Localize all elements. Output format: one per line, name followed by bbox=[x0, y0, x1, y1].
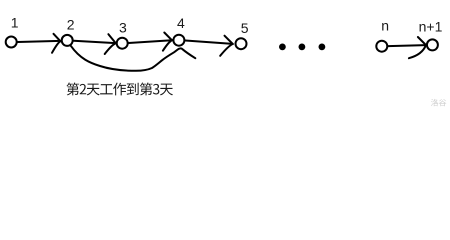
arrowhead n-n+1 bbox=[418, 37, 426, 45]
node 4 circle bbox=[173, 35, 184, 46]
svg-text:1: 1 bbox=[11, 15, 19, 31]
svg-text:3: 3 bbox=[119, 19, 127, 35]
watermark 洛谷 bbox=[431, 99, 446, 106]
curved edge 2-4 (second arc) bbox=[71, 46, 196, 71]
node n circle bbox=[376, 41, 387, 52]
svg-text:2: 2 bbox=[67, 17, 75, 33]
svg-text:5: 5 bbox=[241, 20, 249, 36]
arrowhead 1-2 bbox=[54, 34, 61, 41]
node 3 circle bbox=[117, 38, 128, 49]
ellipsis dot 1 bbox=[279, 44, 286, 51]
arrowhead 4-5 bbox=[225, 36, 233, 44]
svg-text:4: 4 bbox=[177, 15, 185, 31]
wire edge 1-2 bbox=[18, 41, 61, 42]
annotation text 第2天工作到第3天 bbox=[66, 82, 172, 95]
wire edge 2-3 bbox=[74, 41, 116, 43]
arrowhead 3-4 bbox=[164, 33, 172, 41]
node 1 circle bbox=[6, 37, 17, 48]
ellipsis dot 3 bbox=[319, 44, 326, 51]
wire edge 3-4 bbox=[129, 40, 172, 43]
svg-text:n+1: n+1 bbox=[419, 19, 443, 35]
node n+1 circle bbox=[427, 39, 438, 50]
wire edge 4-5 bbox=[185, 41, 232, 44]
node 5 circle bbox=[236, 38, 247, 49]
ellipsis dot 2 bbox=[299, 44, 306, 51]
node 2 circle bbox=[62, 35, 73, 46]
arrowhead 2-3 bbox=[108, 34, 115, 43]
wire edge n-n+1 bbox=[388, 45, 426, 46]
svg-text:n: n bbox=[381, 17, 389, 33]
